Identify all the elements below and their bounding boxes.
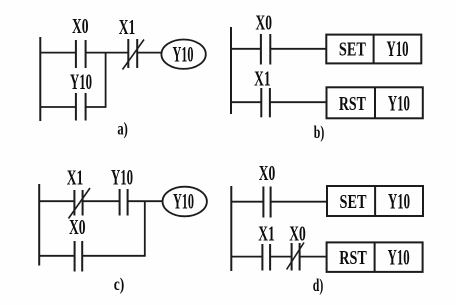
wire X0 to SET box (b) [270,48,326,50]
wire X1 to Y10 contact (c) [83,200,120,202]
svg-text:Y10: Y10 [173,189,194,214]
svg-text:X0: X0 [289,222,306,246]
RST box (d) [327,242,423,272]
contact X0 (NO) b [261,34,270,65]
contact X0 (NC) d [287,243,304,271]
svg-text:Y10: Y10 [388,189,410,214]
svg-text:X0: X0 [69,215,86,239]
contact Y10 (NO) c [120,189,128,216]
branch wire rail to Y10 contact (a) [40,106,76,108]
svg-text:X1: X1 [119,15,136,39]
svg-text:b): b) [314,122,325,143]
wire rung1 c: rail to X1 [39,200,74,202]
svg-text:RST: RST [339,247,367,269]
left power rail (c) [38,184,40,266]
svg-text:d): d) [313,275,324,296]
wire rung2 d: rail to X1 [231,256,262,258]
svg-text:Y10: Y10 [388,90,410,115]
branch connector (c) [144,201,146,256]
left power rail (a) [39,37,41,121]
wire X1 to RST box (b) [270,101,327,103]
wire rung1 a: rail to X0 [40,52,76,54]
svg-text:SET: SET [340,191,367,213]
svg-text:c): c) [114,274,125,295]
wire X0 to RST box (d) [300,256,327,258]
wire Y10 contact to coil (c) [128,200,163,202]
svg-text:Y10: Y10 [388,244,410,269]
svg-text:SET: SET [339,39,366,61]
wire rung2 b: rail to X1 [231,101,261,103]
svg-text:X1: X1 [67,166,84,190]
svg-text:a): a) [117,119,128,140]
svg-text:X0: X0 [259,161,276,185]
wire X1 to coil (a) [137,52,161,54]
coil Y10 (c) [163,187,207,217]
wire rung1 b: rail to X0 [231,48,261,50]
left power rail (d) [230,186,232,271]
contact X1 (NC) a [123,39,145,70]
coil Y10 (a) [161,40,205,69]
wire X0 to X1 (a) [86,52,129,54]
contact Y10 (NO) a [76,93,86,121]
branch connector (a) [105,53,107,107]
wire X0 to SET box (d) [271,201,327,203]
svg-text:Y10: Y10 [173,41,194,66]
wire rung1 d: rail to X0 [231,201,263,203]
svg-text:X0: X0 [255,11,272,35]
contact X1 (NC) c [69,188,91,219]
contact X0 (NO) d [263,187,270,218]
svg-text:Y10: Y10 [70,69,92,94]
contact X0 (NO) c [75,241,83,272]
branch wire X0 to connector (c) [82,255,146,257]
svg-text:RST: RST [339,93,366,115]
contact X0 (NO) a [76,40,86,68]
svg-text:Y10: Y10 [387,36,409,61]
wire X1 to X0 (d) [270,256,292,258]
left power rail (b) [230,27,232,114]
SET box (d) [327,186,423,216]
branch wire Y10 contact to connector (a) [86,106,107,108]
branch wire rail to X0 contact (c) [39,255,74,257]
svg-text:X0: X0 [72,14,89,38]
SET box (b) [326,35,421,64]
contact X1 (NO) d [262,244,270,271]
RST box (b) [327,87,423,118]
svg-text:X1: X1 [258,222,275,246]
svg-text:X1: X1 [254,66,271,90]
contact X1 (NO) b [261,88,270,117]
svg-text:Y10: Y10 [111,165,133,190]
